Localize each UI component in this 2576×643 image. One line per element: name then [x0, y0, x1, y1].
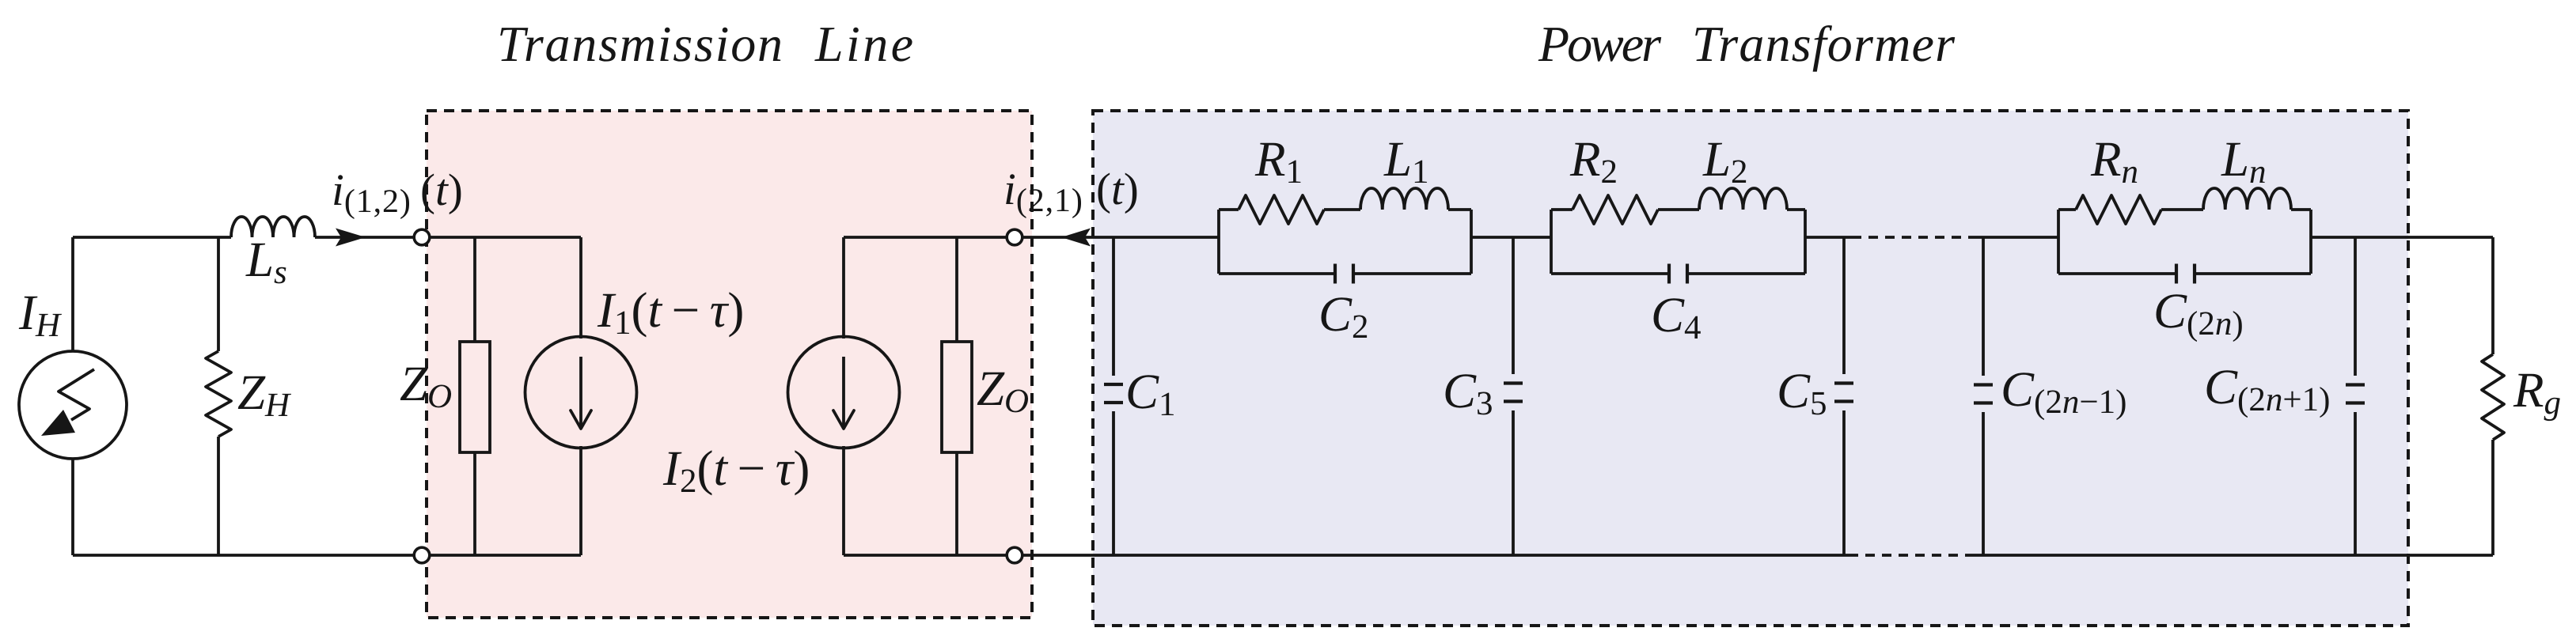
inductor Ln coil: [2203, 188, 2291, 210]
capacitor C4 plates: [1667, 264, 1671, 284]
resistor R2 zigzag: [1573, 195, 1658, 224]
block 3 top wire a: [2058, 208, 2076, 211]
svg-text:Transmission: Transmission: [497, 16, 783, 72]
wire Z_H upper: [217, 237, 220, 351]
block 1 top wire b: [1324, 208, 1360, 211]
wire top-left: [73, 236, 231, 239]
wire Z_O2 upper: [955, 237, 958, 342]
wire Z_H lower: [217, 437, 220, 555]
block 3 bottom wire a: [2058, 272, 2176, 275]
RLC block 1 left edge: [1217, 210, 1220, 274]
wire PT bottom right: [1974, 554, 2493, 557]
RLC block 2 right edge: [1804, 210, 1807, 274]
block 1 top wire a: [1219, 208, 1239, 211]
block 2 bottom wire b: [1687, 272, 1805, 275]
block 1 top wire c: [1448, 208, 1471, 211]
RLC block 2 left edge: [1550, 210, 1553, 274]
svg-text:Line: Line: [814, 16, 913, 72]
wire block1-block2: [1471, 236, 1551, 239]
block 2 top wire a: [1551, 208, 1573, 211]
resistor Rn zigzag: [2076, 195, 2161, 224]
block 2 top wire c: [1787, 208, 1805, 211]
wire C1 lower: [1112, 411, 1115, 555]
wire I1 lower: [579, 446, 582, 555]
resistor R1 zigzag: [1239, 195, 1324, 224]
svg-text:Power: Power: [1538, 16, 1662, 72]
transmission line box: [427, 111, 1032, 618]
current source I1: [525, 337, 637, 448]
wire Z_O1 lower: [473, 452, 476, 555]
wire PT bottom solid: [1022, 554, 1849, 557]
RLC block 1 right edge: [1470, 210, 1473, 274]
block 2 bottom wire a: [1551, 272, 1669, 275]
wire C(2n+1) lower: [2354, 412, 2357, 555]
resistor Z_H zigzag: [206, 351, 231, 437]
wire left upper: [71, 237, 74, 351]
arrow i_(1,2): [336, 229, 366, 247]
RLC block 3 left edge: [2057, 210, 2060, 274]
inductor L2 coil: [1699, 188, 1787, 210]
node out top: [1007, 229, 1022, 245]
wire I2 upper: [842, 237, 845, 339]
wire C1 upper: [1112, 237, 1115, 376]
wire R_g upper: [2491, 237, 2494, 354]
wire Z_O2 lower: [955, 452, 958, 555]
wire C(2n+1) upper: [2354, 237, 2357, 376]
capacitor C5 plates: [1834, 381, 1853, 384]
capacitor C1 plates: [1104, 383, 1123, 386]
resistor R_g zigzag: [2482, 354, 2504, 440]
wire dashed top: [1852, 236, 1977, 239]
capacitor C(2n+1) plates: [2346, 383, 2365, 386]
svg-text:i(2,1): i(2,1): [1003, 165, 1083, 219]
block 3 top wire b: [2161, 208, 2203, 211]
block 1 bottom wire b: [1353, 272, 1471, 275]
wire I1 upper: [579, 237, 582, 339]
impedance Z_O right: [942, 342, 972, 452]
svg-text:Ls: Ls: [245, 232, 287, 291]
svg-text:(t): (t): [420, 165, 463, 215]
svg-text:IH: IH: [18, 285, 62, 344]
wire TL bottom-right: [844, 554, 1007, 557]
node in bottom: [414, 547, 430, 563]
wire R_g lower: [2491, 440, 2494, 555]
wire C(2n-1) upper: [1982, 237, 1985, 376]
capacitor C3 plates: [1504, 381, 1523, 384]
wire left lower: [71, 459, 74, 555]
wire dashed bottom: [1849, 554, 1974, 557]
block 1 bottom wire a: [1219, 272, 1335, 275]
wire to C5: [1805, 236, 1852, 239]
current source I_H: [19, 351, 127, 459]
svg-text:i(1,2): i(1,2): [332, 165, 411, 220]
capacitor C(2n-1) plates: [1974, 383, 1993, 386]
capacitor C(2n) plates: [2175, 264, 2178, 284]
block 3 bottom wire b: [2195, 272, 2311, 275]
wire C3 lower: [1512, 410, 1515, 555]
wire bottom-left: [73, 554, 415, 557]
current source I2: [788, 337, 900, 448]
svg-text:ZH: ZH: [237, 365, 291, 424]
wire Z_O1 upper: [473, 237, 476, 342]
svg-text:Rg: Rg: [2513, 362, 2561, 422]
wire C(2n-1) lower: [1982, 412, 1985, 555]
capacitor C2 plates: [1334, 264, 1337, 284]
wire C5 upper: [1842, 237, 1846, 374]
block 2 top wire b: [1658, 208, 1699, 211]
arrow i_(2,1): [1061, 229, 1091, 247]
node in top: [414, 229, 430, 245]
inductor L_s coil: [231, 217, 315, 237]
node out bottom: [1007, 547, 1022, 563]
wire C3 upper: [1512, 237, 1515, 374]
inductor L1 coil: [1360, 188, 1448, 210]
impedance Z_O left: [460, 342, 490, 452]
svg-text:Transformer: Transformer: [1692, 16, 1956, 72]
wire to block3: [1977, 236, 2058, 239]
wire to node 1: [315, 236, 415, 239]
wire TL top-right: [844, 236, 1007, 239]
RLC block 3 right edge: [2309, 210, 2312, 274]
wire to PT: [1022, 236, 1219, 239]
wire PT top right: [2311, 236, 2493, 239]
wire TL bottom-left: [430, 554, 581, 557]
block 3 top wire c: [2291, 208, 2311, 211]
wire C5 lower: [1842, 410, 1846, 555]
svg-text:(t): (t): [1096, 165, 1139, 214]
wire I2 lower: [842, 446, 845, 555]
power transformer box: [1093, 111, 2408, 626]
wire TL top-left: [430, 236, 581, 239]
